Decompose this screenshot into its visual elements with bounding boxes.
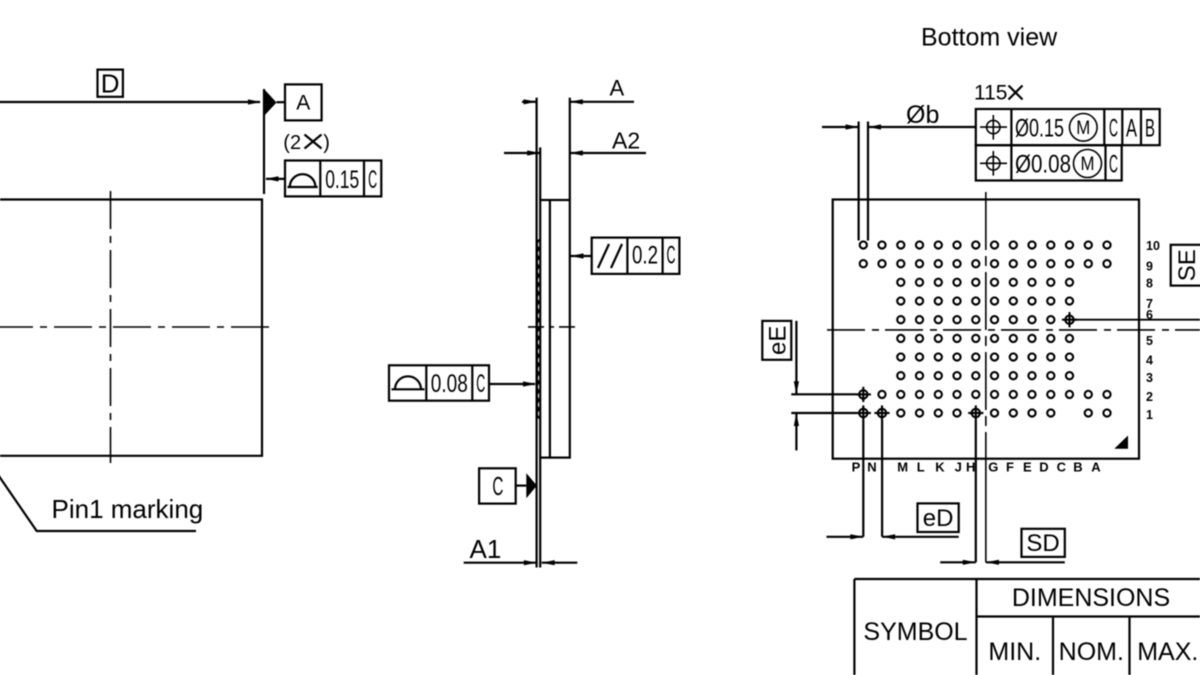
svg-text:(2: (2 bbox=[283, 132, 301, 154]
svg-text:M: M bbox=[1076, 118, 1090, 139]
note (2X) bbox=[283, 132, 330, 154]
svg-text:Ø0.08: Ø0.08 bbox=[1015, 151, 1071, 179]
svg-text:0.15: 0.15 bbox=[325, 166, 359, 194]
position tolerance frame row2 bbox=[976, 145, 1122, 180]
datum A box bbox=[285, 84, 322, 120]
svg-text:H: H bbox=[966, 460, 975, 475]
table bbox=[854, 579, 1200, 675]
svg-text:8: 8 bbox=[1146, 276, 1153, 290]
SE reference line from ball C6 bbox=[1070, 319, 1200, 321]
svg-text:NOM.: NOM. bbox=[1059, 638, 1124, 666]
dimension A2 bbox=[504, 128, 646, 156]
svg-text:SD: SD bbox=[1026, 530, 1059, 557]
svg-text:A2: A2 bbox=[612, 128, 640, 154]
svg-text:C: C bbox=[1109, 151, 1118, 179]
svg-text:G: G bbox=[988, 460, 998, 475]
svg-text:A: A bbox=[1091, 460, 1101, 475]
table text MAX. bbox=[1137, 638, 1198, 666]
dim Ob bbox=[822, 101, 976, 130]
bottom view horizontal centerline bbox=[827, 329, 1200, 331]
dimension D box bbox=[98, 68, 123, 98]
parallelism leader bbox=[570, 253, 592, 258]
svg-text:0.2: 0.2 bbox=[632, 242, 658, 270]
extension lines side view bbox=[540, 98, 570, 568]
svg-text:F: F bbox=[1006, 460, 1014, 475]
svg-text:9: 9 bbox=[1146, 260, 1153, 274]
svg-text:SE: SE bbox=[1174, 249, 1200, 281]
svg-text:0.08: 0.08 bbox=[431, 370, 468, 398]
parallelism frame 0.2 C bbox=[592, 238, 680, 274]
svg-text:K: K bbox=[935, 460, 945, 475]
row numbers bbox=[1146, 239, 1160, 422]
svg-text:6: 6 bbox=[1146, 308, 1153, 322]
solder balls bbox=[860, 241, 1111, 416]
svg-text:E: E bbox=[1023, 460, 1032, 475]
side view ball scallops bbox=[537, 240, 540, 418]
svg-text:L: L bbox=[917, 460, 925, 475]
svg-text:M: M bbox=[897, 460, 908, 475]
svg-text:Ø0.15: Ø0.15 bbox=[1015, 115, 1064, 143]
svg-text:eD: eD bbox=[923, 505, 954, 532]
datum A triangle bbox=[264, 89, 285, 194]
svg-text:10: 10 bbox=[1146, 239, 1160, 253]
svg-text:P: P bbox=[852, 460, 861, 475]
seating plane line bbox=[535, 98, 537, 568]
svg-text:C: C bbox=[492, 471, 503, 501]
svg-text:eE: eE bbox=[764, 326, 791, 355]
Bottom view title bbox=[921, 23, 1058, 51]
svg-text:Pin1 marking: Pin1 marking bbox=[52, 494, 204, 524]
profile frame 0.08 C bbox=[389, 365, 489, 400]
svg-text:Øb: Øb bbox=[906, 101, 939, 129]
dim Ob extension lines bbox=[859, 122, 868, 241]
SD dimension bbox=[940, 421, 1065, 565]
package top view outline bbox=[0, 200, 262, 456]
bottom view vertical centerline bbox=[985, 192, 987, 562]
datum C symbol bbox=[479, 468, 537, 503]
svg-text:D: D bbox=[101, 68, 120, 98]
SE label box bbox=[1171, 245, 1200, 286]
side view inner line bbox=[549, 200, 551, 458]
svg-text:1: 1 bbox=[1146, 408, 1153, 422]
svg-text:B: B bbox=[1145, 115, 1155, 143]
package bottom view outline bbox=[833, 200, 1139, 459]
svg-text:SYMBOL: SYMBOL bbox=[863, 618, 967, 646]
svg-text:4: 4 bbox=[1146, 353, 1153, 367]
svg-text:N: N bbox=[867, 460, 876, 475]
top view horizontal centerline bbox=[0, 326, 272, 328]
Pin1 marking text bbox=[52, 494, 204, 524]
eD dimension bbox=[827, 421, 959, 540]
side view centerline bbox=[528, 326, 578, 328]
svg-text:A1: A1 bbox=[470, 534, 502, 564]
svg-text:D: D bbox=[1039, 460, 1048, 475]
svg-text:A: A bbox=[1126, 115, 1137, 143]
svg-text:115: 115 bbox=[974, 82, 1007, 105]
table text DIMENSIONS bbox=[1012, 584, 1170, 612]
svg-text:A: A bbox=[296, 92, 310, 115]
A1 corner mark bbox=[1114, 436, 1128, 449]
profile 0.08 leader bbox=[489, 381, 536, 386]
svg-text:5: 5 bbox=[1146, 334, 1153, 348]
svg-text:3: 3 bbox=[1146, 371, 1153, 385]
column letters bbox=[852, 460, 1102, 475]
profile tolerance frame 0.15 C bbox=[285, 161, 381, 197]
leader to profile frame bbox=[266, 176, 286, 181]
svg-text:Bottom view: Bottom view bbox=[921, 23, 1058, 51]
svg-text:2: 2 bbox=[1146, 390, 1153, 404]
dimension D line bbox=[0, 99, 261, 104]
svg-text:J: J bbox=[955, 460, 962, 475]
table text MIN. bbox=[988, 638, 1041, 666]
eE dimension bbox=[791, 321, 856, 451]
eD label box bbox=[918, 503, 959, 532]
svg-text:B: B bbox=[1073, 460, 1082, 475]
dimension A1 bbox=[464, 534, 578, 565]
svg-text:C: C bbox=[368, 166, 377, 194]
table text NOM. bbox=[1059, 638, 1124, 666]
svg-text:DIMENSIONS: DIMENSIONS bbox=[1012, 584, 1170, 612]
SD label box bbox=[1022, 529, 1065, 557]
position tolerance frame row1 bbox=[976, 109, 1160, 145]
eE label box bbox=[762, 321, 791, 360]
top view vertical centerline bbox=[110, 191, 112, 463]
svg-text:A: A bbox=[610, 76, 625, 101]
dimension A bbox=[522, 76, 634, 105]
table text SYMBOL bbox=[863, 618, 967, 646]
svg-text:C: C bbox=[1109, 115, 1118, 143]
Pin1 leader bbox=[0, 466, 196, 531]
svg-text:C: C bbox=[667, 242, 676, 270]
svg-text:): ) bbox=[323, 132, 330, 154]
svg-text:C: C bbox=[476, 370, 485, 398]
side view body outline bbox=[540, 200, 570, 458]
svg-text:M: M bbox=[1081, 154, 1095, 175]
svg-text:MAX.: MAX. bbox=[1137, 638, 1198, 666]
note 115X bbox=[974, 82, 1023, 105]
svg-text:C: C bbox=[1057, 460, 1067, 475]
svg-text:MIN.: MIN. bbox=[988, 638, 1041, 666]
toleranced balls with crosshair bbox=[856, 312, 1077, 421]
